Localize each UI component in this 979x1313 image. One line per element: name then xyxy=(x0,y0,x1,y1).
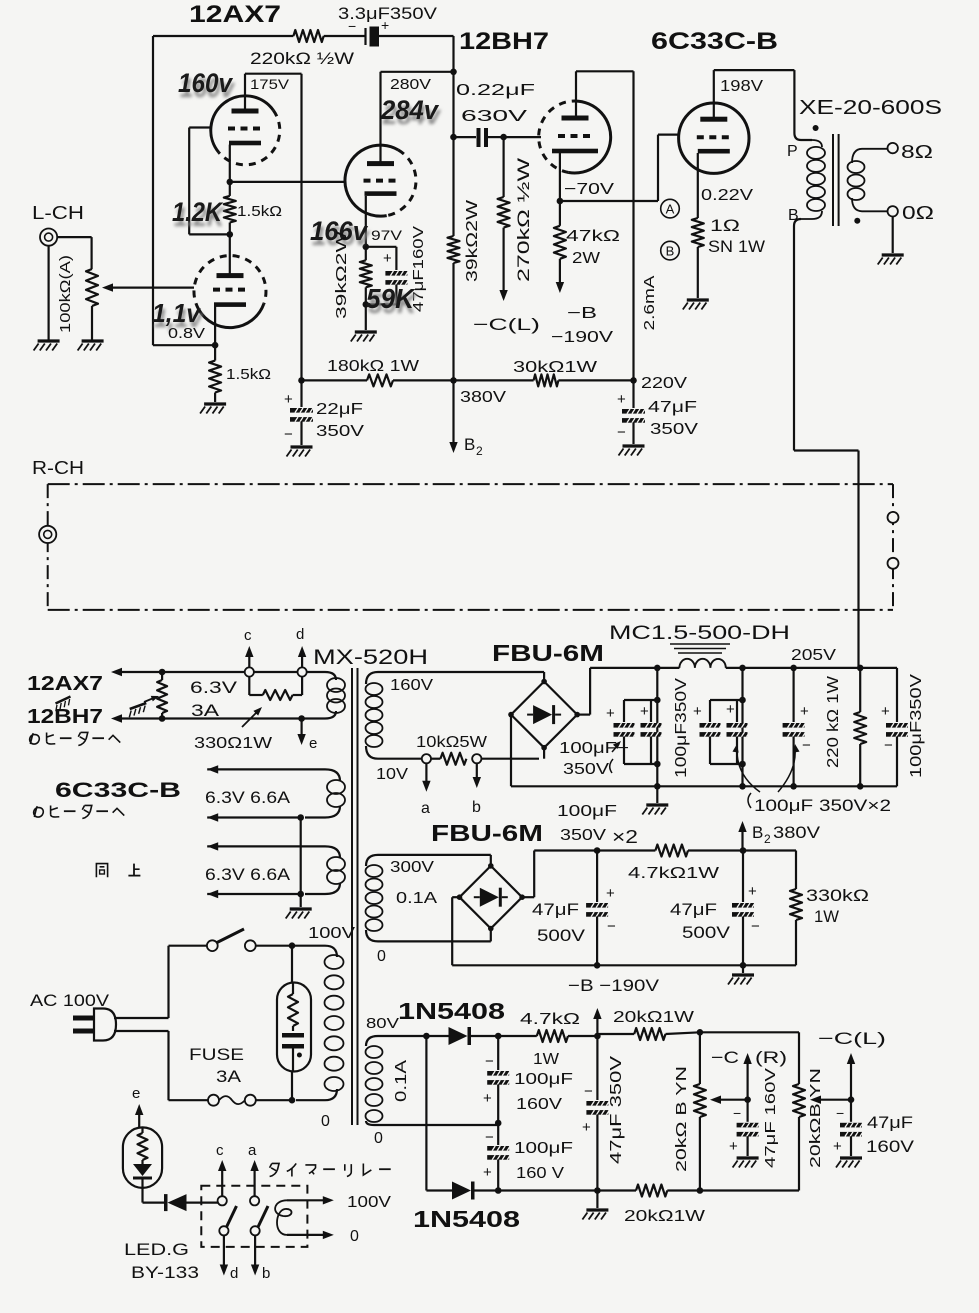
resistor 47k 2W xyxy=(559,201,561,226)
svg-text:+: + xyxy=(881,703,890,720)
svg-text:4.7kΩ: 4.7kΩ xyxy=(520,1011,580,1028)
winding 160V xyxy=(366,672,544,684)
wire bridge2 DC- rail xyxy=(452,896,459,898)
svg-text:22μF: 22μF xyxy=(316,401,363,418)
svg-text:+: + xyxy=(483,1090,492,1107)
wire B rail upper xyxy=(452,36,454,137)
node heater CT 1 xyxy=(297,814,304,821)
capacitor C 100uF350V xyxy=(792,668,794,722)
svg-text:1.2K: 1.2K xyxy=(172,197,224,227)
svg-text:0: 0 xyxy=(321,1113,330,1130)
svg-text:30kΩ1W: 30kΩ1W xyxy=(513,359,598,376)
ground cathode RC xyxy=(351,332,377,342)
arrow relay a xyxy=(254,1164,256,1196)
svg-text:12BH7: 12BH7 xyxy=(27,706,103,728)
svg-text:+: + xyxy=(640,703,649,720)
wire V3 plate lead xyxy=(575,71,577,119)
svg-text:BY-133: BY-133 xyxy=(131,1263,199,1282)
svg-text:180kΩ 1W: 180kΩ 1W xyxy=(327,358,420,375)
svg-text:284v: 284v xyxy=(380,95,440,125)
svg-text:3A: 3A xyxy=(216,1067,242,1086)
svg-text:160V: 160V xyxy=(390,677,433,694)
arrow relay b xyxy=(254,1235,256,1271)
svg-text:e: e xyxy=(309,735,317,752)
svg-text:−B: −B xyxy=(567,305,597,322)
svg-text:39kΩ2W: 39kΩ2W xyxy=(333,230,350,319)
label no-heater-he 2 xyxy=(34,806,44,817)
arrow relay c xyxy=(221,1164,223,1196)
potentiometer 20k B YN -C(R) xyxy=(699,1032,701,1084)
capacitor 47uF 350V bias xyxy=(596,1036,598,1100)
node switch-lamp junction xyxy=(289,942,296,949)
wire jack to pot xyxy=(57,236,91,238)
wiper -C(R) xyxy=(716,1099,748,1101)
node fuse-lamp junction xyxy=(289,1097,296,1104)
test point A xyxy=(661,199,680,218)
arrow terminal c xyxy=(248,650,250,667)
wire V2a plate lead xyxy=(379,72,381,164)
resistor 20k 1W bottom xyxy=(636,1185,667,1197)
svg-text:0.1A: 0.1A xyxy=(396,890,437,907)
node pot R top xyxy=(697,1029,704,1036)
svg-text:100kΩ(A): 100kΩ(A) xyxy=(57,255,74,333)
svg-text:+: + xyxy=(483,1164,492,1181)
svg-text:FBU-6M: FBU-6M xyxy=(431,820,543,846)
svg-text:0: 0 xyxy=(350,1228,359,1245)
svg-text:+: + xyxy=(617,391,626,408)
svg-text:10kΩ5W: 10kΩ5W xyxy=(416,734,488,751)
arrow B2 380V xyxy=(741,826,743,851)
wire 380V bus xyxy=(454,379,534,381)
node B1 rails xyxy=(654,665,661,672)
svg-text:12BH7: 12BH7 xyxy=(459,28,549,55)
svg-text:1N5408: 1N5408 xyxy=(413,1206,520,1232)
svg-text:12AX7: 12AX7 xyxy=(27,673,103,695)
wire pot wiper to V2 grid xyxy=(106,287,194,289)
wire OPT P lead xyxy=(793,70,795,133)
capacitor 47uF 350V decoupling xyxy=(632,380,634,408)
capacitor 47uF 160V bypass xyxy=(366,246,397,248)
svg-text:+: + xyxy=(606,705,615,722)
node grid node xyxy=(500,134,507,141)
wire diode to relay xyxy=(187,1201,219,1203)
wire B1 top rail xyxy=(590,667,679,669)
input jack L xyxy=(40,229,57,246)
svg-text:330kΩ: 330kΩ xyxy=(806,886,869,905)
svg-text:100μF350V: 100μF350V xyxy=(908,674,925,778)
capacitor 100uF 160V upper xyxy=(497,1036,499,1070)
label timer relay katakana xyxy=(270,1164,272,1168)
wire jack ground lead xyxy=(47,246,49,340)
ground cap L xyxy=(836,1158,862,1168)
svg-text:c: c xyxy=(216,1142,224,1159)
svg-text:+: + xyxy=(833,1138,842,1155)
ground B1 filter xyxy=(656,786,658,803)
hum center tap ground xyxy=(144,697,156,702)
svg-text:350V: 350V xyxy=(650,421,698,438)
capacitor bank B 100uF x2 xyxy=(741,668,743,786)
svg-text:97V: 97V xyxy=(371,227,403,243)
wire plate to rail xyxy=(381,71,454,73)
wire rail to cathode xyxy=(153,344,215,346)
terminal R out 1 xyxy=(888,512,899,523)
node V2 cathode junction xyxy=(212,342,219,349)
OPT secondary winding xyxy=(852,149,887,163)
transformer core xyxy=(351,668,353,1125)
svg-text:47μF 350V: 47μF 350V xyxy=(608,1056,625,1164)
svg-text:100V: 100V xyxy=(347,1194,391,1211)
svg-text:LED.G: LED.G xyxy=(124,1240,189,1259)
node cathode RC bottom xyxy=(363,301,370,308)
ground OPT secondary xyxy=(878,255,904,265)
svg-text:−: − xyxy=(284,426,293,443)
relay contact a xyxy=(250,1196,259,1205)
wire cathode to V2 grid xyxy=(230,181,345,183)
svg-text:100μF: 100μF xyxy=(514,1071,573,1088)
power switch xyxy=(169,945,207,947)
resistor 220k half-W xyxy=(293,30,323,42)
resistor 180k 1W xyxy=(302,379,368,381)
ground potentiometer xyxy=(78,341,104,351)
node 220V junction xyxy=(630,377,637,384)
wire V4 cathode lead xyxy=(697,153,699,218)
svg-text:d: d xyxy=(296,626,304,643)
svg-text:−: − xyxy=(584,1083,593,1100)
svg-text:a: a xyxy=(248,1142,257,1159)
ground heater label xyxy=(53,697,74,712)
pilot lamp xyxy=(291,946,293,983)
capacitor D 100uF350V right xyxy=(896,668,898,722)
svg-text:47μF: 47μF xyxy=(867,1113,913,1132)
svg-text:47kΩ: 47kΩ xyxy=(566,228,620,245)
arrow relay d xyxy=(223,1235,225,1271)
svg-text:6C33C-B: 6C33C-B xyxy=(55,779,181,802)
wire V4 plate to OPT xyxy=(714,69,795,71)
svg-text:−: − xyxy=(607,918,616,935)
svg-text:6.3V: 6.3V xyxy=(190,678,238,697)
svg-text:−: − xyxy=(802,737,811,754)
svg-text:−: − xyxy=(836,1105,844,1121)
ground cathode resistor xyxy=(200,404,226,414)
wire V1a plate lead xyxy=(244,74,246,112)
svg-text:100μF: 100μF xyxy=(514,1140,573,1157)
svg-text:−: − xyxy=(884,737,893,754)
node bias gnd xyxy=(594,1187,601,1194)
wire bridge bottom stub xyxy=(543,748,545,759)
svg-text:175V: 175V xyxy=(250,76,290,92)
node doubler mid xyxy=(495,1120,502,1127)
arrow terminal e xyxy=(301,719,303,742)
wire OPT B lead down xyxy=(794,219,801,226)
svg-text:a: a xyxy=(421,800,430,817)
LED lamp BY-133 xyxy=(123,1127,162,1188)
wire top B+ bus xyxy=(153,35,293,37)
ground 47uF decoupling xyxy=(619,446,645,456)
svg-text:380V: 380V xyxy=(773,823,821,842)
phase dot secondary xyxy=(854,218,860,224)
wire V1a grid feedback left xyxy=(189,126,212,128)
capacitor 47uF 500V second xyxy=(742,851,744,903)
node -70V junction xyxy=(557,198,564,205)
svg-text:47μF: 47μF xyxy=(532,900,579,919)
svg-text:−: − xyxy=(485,1129,494,1146)
svg-text:220V: 220V xyxy=(641,375,687,392)
svg-text:−: − xyxy=(485,1053,494,1070)
capacitor 3.3uF 350V xyxy=(364,28,366,45)
svg-text:500V: 500V xyxy=(682,923,731,942)
relay contact c xyxy=(218,1196,227,1205)
node V2a cathode junction xyxy=(363,244,370,251)
svg-text:160V: 160V xyxy=(516,1096,562,1113)
wire AC down leg xyxy=(425,1036,427,1191)
svg-text:AC 100V: AC 100V xyxy=(30,991,110,1010)
arrow -C(L) xyxy=(850,1058,852,1100)
svg-text:×2: ×2 xyxy=(612,827,638,847)
svg-text:P: P xyxy=(787,143,798,160)
svg-text:FBU-6M: FBU-6M xyxy=(492,640,604,666)
svg-text:280V: 280V xyxy=(390,76,431,93)
node cap node xyxy=(450,134,457,141)
R channel dashed box top xyxy=(48,483,893,485)
ground B2 supply xyxy=(742,965,744,973)
node B2 bottom xyxy=(594,962,601,969)
bridge rectifier FBU-6M 1 xyxy=(543,672,545,682)
node plate rail junction xyxy=(450,69,457,76)
resistor 39k 2W left rail xyxy=(452,137,454,236)
fuse xyxy=(169,1099,209,1101)
heater wire 6.3V top xyxy=(111,668,122,676)
svg-text:XE-20-600S: XE-20-600S xyxy=(799,97,942,119)
svg-text:39kΩ2W: 39kΩ2W xyxy=(464,199,481,282)
R channel dashed box right xyxy=(892,484,894,610)
svg-text:R-CH: R-CH xyxy=(32,458,84,478)
svg-text:6.3V 6.6A: 6.3V 6.6A xyxy=(205,788,291,807)
node V1a cathode junction xyxy=(227,179,234,186)
svg-text:300V: 300V xyxy=(390,859,434,876)
resistor 30k 1W xyxy=(534,374,559,386)
arrow -B up xyxy=(596,1013,598,1036)
svg-text:1,1v: 1,1v xyxy=(152,298,201,328)
svg-text:270kΩ ½W: 270kΩ ½W xyxy=(514,158,533,282)
wire heater CT xyxy=(300,818,302,895)
triode V1a 12AX7 xyxy=(211,96,274,152)
svg-text:b: b xyxy=(262,1265,270,1282)
label dou-ue xyxy=(96,864,107,878)
R channel dashed box left xyxy=(47,484,49,610)
terminal R out 2 xyxy=(888,558,899,569)
wire left rail xyxy=(152,36,154,345)
node 180k junction xyxy=(298,377,305,384)
svg-text:100μF: 100μF xyxy=(557,803,617,820)
potentiometer 100k(A) xyxy=(86,269,98,306)
svg-text:−: − xyxy=(751,918,760,935)
heater wire 6.6A return 2 xyxy=(207,893,301,895)
svg-text:1Ω: 1Ω xyxy=(710,216,740,235)
phase dot primary xyxy=(813,125,819,131)
terminal 8ohm xyxy=(888,143,898,153)
wire D1 out xyxy=(471,1035,498,1037)
AC plug xyxy=(73,1016,94,1021)
wire bridge2 DC+ rail xyxy=(522,896,534,898)
power triode V4 6C33C-B xyxy=(679,103,749,173)
resistor 4.7k 1W bias xyxy=(537,1030,568,1042)
hum balance resistor xyxy=(157,680,167,713)
wire bias top rail xyxy=(498,1035,537,1037)
ground bias supply xyxy=(582,1210,608,1220)
wire cathode to V4 grid xyxy=(560,200,658,202)
svg-text:59K: 59K xyxy=(366,283,416,314)
ground cap R xyxy=(733,1158,759,1168)
svg-text:350V: 350V xyxy=(563,761,609,778)
svg-text:20kΩ1W: 20kΩ1W xyxy=(624,1208,706,1225)
wire V3 plate top xyxy=(576,70,634,72)
svg-text:100V: 100V xyxy=(308,925,355,942)
svg-text:e: e xyxy=(132,1085,140,1102)
svg-text:380V: 380V xyxy=(460,389,506,406)
svg-text:−70V: −70V xyxy=(564,181,614,198)
wire plate box top xyxy=(245,73,302,75)
svg-text:(R): (R) xyxy=(755,1048,787,1067)
ground heater CT xyxy=(286,909,312,919)
wire 80V to D1 xyxy=(421,1035,449,1037)
resistor 10k 5W xyxy=(431,758,440,760)
svg-text:630V: 630V xyxy=(461,108,528,125)
wire CT ground lead xyxy=(300,894,302,907)
wire bias gnd lead xyxy=(596,1191,598,1209)
node 380V junction left xyxy=(450,377,457,384)
node D1 in xyxy=(423,1033,430,1040)
svg-text:3.3μF350V: 3.3μF350V xyxy=(338,4,438,23)
wire V2 cathode lead xyxy=(214,306,216,345)
svg-text:0.1A: 0.1A xyxy=(393,1060,410,1102)
svg-text:1W: 1W xyxy=(814,907,839,926)
svg-text:MX-520H: MX-520H xyxy=(313,646,428,669)
OPT core xyxy=(832,134,834,226)
arrow relay 0 xyxy=(287,1234,327,1236)
arrow -C(R) xyxy=(746,1058,748,1100)
terminal a 10k xyxy=(422,754,431,763)
input jack R xyxy=(39,526,56,543)
svg-text:47μF: 47μF xyxy=(648,399,697,416)
node hum bottom xyxy=(159,715,166,722)
wire right edge bias xyxy=(798,1032,800,1084)
svg-text:B: B xyxy=(464,435,475,454)
terminal d xyxy=(298,667,307,676)
svg-text:4.7kΩ1W: 4.7kΩ1W xyxy=(628,865,720,882)
capacitor bank A 100uF x2 xyxy=(656,668,658,786)
capacitor 100uF 160V lower xyxy=(497,1123,499,1145)
svg-text:+: + xyxy=(693,703,702,720)
svg-text:B: B xyxy=(752,823,763,842)
svg-text:330Ω1W: 330Ω1W xyxy=(194,735,273,752)
wiper -C(L) xyxy=(816,1099,851,1101)
bridge rectifier FBU-6M 2 xyxy=(490,855,492,866)
wire bridge DC- to rail xyxy=(510,715,512,787)
wire V3 plate rail down xyxy=(632,71,634,380)
node bias bottom left xyxy=(495,1187,502,1194)
OPT primary winding xyxy=(812,140,822,147)
svg-text:350V: 350V xyxy=(316,423,364,440)
winding 6.3V 3A xyxy=(327,678,345,692)
node heater CT 2 xyxy=(297,891,304,898)
svg-text:20kΩ B YN: 20kΩ B YN xyxy=(673,1066,690,1172)
wire bias bottom rail xyxy=(498,1189,636,1191)
svg-text:2W: 2W xyxy=(572,250,601,267)
winding 6.3V 6.6A first xyxy=(207,769,340,781)
timer relay dashed box xyxy=(201,1186,307,1247)
node hum top xyxy=(159,669,166,676)
relay contact b2 xyxy=(251,1226,260,1235)
winding 300V xyxy=(366,855,491,866)
svg-text:MC1.5-500-DH: MC1.5-500-DH xyxy=(609,623,790,644)
relay contact c2 xyxy=(219,1226,228,1235)
svg-text:−: − xyxy=(617,424,626,441)
svg-text:0Ω: 0Ω xyxy=(902,203,934,223)
svg-text:A: A xyxy=(666,202,675,217)
node e junction xyxy=(298,715,305,722)
svg-text:500V: 500V xyxy=(537,926,586,945)
svg-text:0: 0 xyxy=(374,1130,383,1147)
svg-text:3A: 3A xyxy=(191,701,220,720)
resistor 20k 1W top xyxy=(634,1028,665,1040)
diode BY-133 xyxy=(164,1194,168,1211)
relay lever 1 xyxy=(227,1206,237,1227)
svg-text:−190V: −190V xyxy=(551,329,613,346)
svg-text:20kΩB YN: 20kΩB YN xyxy=(807,1068,824,1168)
wire V2 plate lead xyxy=(229,234,231,274)
svg-text:B: B xyxy=(788,207,799,224)
heater wire 6.6A return 1 xyxy=(207,816,301,818)
wire bridge DC+ to rail xyxy=(577,713,590,715)
arrow terminal d xyxy=(301,650,303,667)
resistor 39k 2W cathode xyxy=(360,260,372,287)
svg-text:0: 0 xyxy=(377,948,386,965)
capacitor 47uF 160V R xyxy=(746,1100,748,1122)
heater wire 6.3V bottom xyxy=(111,714,122,722)
svg-text:100μF350V: 100μF350V xyxy=(673,678,690,778)
wire to primary top xyxy=(292,946,337,957)
svg-text:−B −190V: −B −190V xyxy=(568,976,660,995)
svg-text:+: + xyxy=(729,1138,738,1155)
wire plate box right rail xyxy=(300,74,302,381)
svg-text:+: + xyxy=(284,391,293,408)
svg-text:1W: 1W xyxy=(533,1051,560,1068)
svg-text:10V: 10V xyxy=(376,766,408,783)
resistor 220k 1W bleed xyxy=(859,668,861,712)
svg-text:12AX7: 12AX7 xyxy=(189,1,281,28)
relay lever 2 xyxy=(258,1206,268,1227)
terminal 0ohm xyxy=(888,206,898,216)
terminal b 10k xyxy=(472,754,481,763)
svg-text:1.5kΩ: 1.5kΩ xyxy=(237,203,282,220)
node B2 node xyxy=(594,847,601,854)
wire LED to diode xyxy=(141,1188,143,1203)
wire V4 plate lead xyxy=(713,70,715,120)
svg-text:47μF: 47μF xyxy=(670,900,717,919)
svg-text:−: − xyxy=(733,1105,741,1121)
triode V2 12BH7-a xyxy=(345,145,398,216)
resistor 1.5k cathode xyxy=(214,345,216,360)
svg-text:+: + xyxy=(748,883,757,900)
svg-text:160V: 160V xyxy=(866,1137,915,1156)
potentiometer 20kB YN -C(L) xyxy=(793,1084,805,1117)
resistor 270k half-W grid leak xyxy=(503,137,505,197)
node D1 out xyxy=(495,1033,502,1040)
svg-text:d: d xyxy=(230,1265,238,1282)
wire cathode RC ground xyxy=(365,304,367,330)
resistor 1ohm SN 1W xyxy=(692,218,704,247)
svg-text:2: 2 xyxy=(764,832,771,846)
